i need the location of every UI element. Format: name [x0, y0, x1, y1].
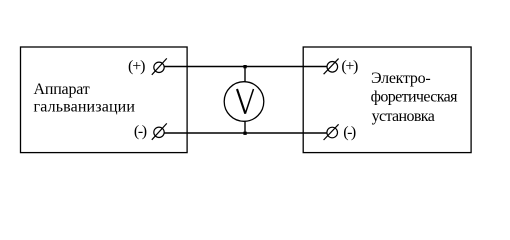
svg-text:(-): (-)	[134, 123, 147, 140]
svg-text:(-): (-)	[343, 124, 356, 141]
svg-text:гальванизации: гальванизации	[34, 98, 136, 115]
svg-text:(+): (+)	[341, 58, 358, 75]
svg-text:(+): (+)	[128, 58, 146, 75]
svg-text:форетическая: форетическая	[371, 88, 459, 105]
svg-text:Аппарат: Аппарат	[34, 81, 90, 98]
svg-text:Электро-: Электро-	[371, 70, 431, 87]
svg-text:установка: установка	[372, 108, 435, 125]
